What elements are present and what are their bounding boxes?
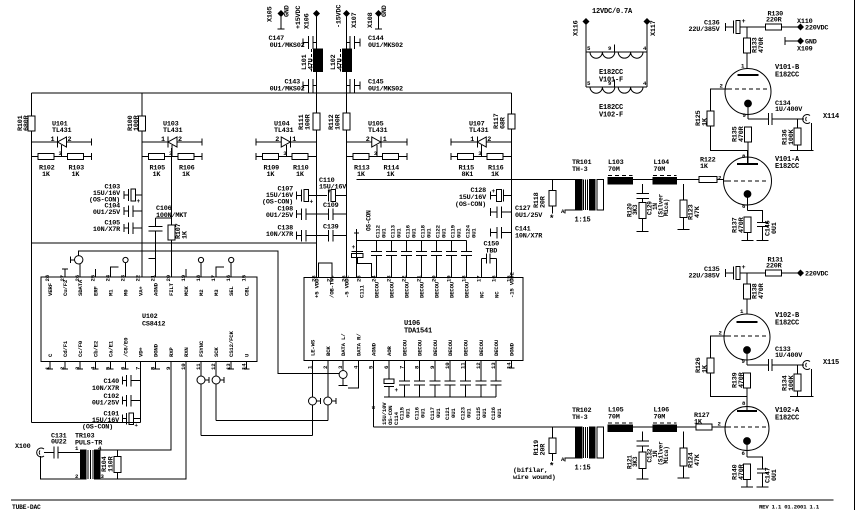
- svg-text:22: 22: [135, 274, 142, 281]
- op-amp U101 TL431 shunt regulator: [32, 121, 92, 180]
- svg-text:470R: 470R: [738, 371, 746, 388]
- svg-text:DECOU: DECOU: [404, 281, 411, 298]
- wire X100 ground return loop: [41, 456, 81, 479]
- capacitor C140 10N/X7R: [92, 375, 141, 393]
- svg-text:SCK: SCK: [213, 347, 220, 357]
- svg-text:X109: X109: [797, 46, 813, 54]
- capacitor C113 0U1 on TDA1541 pin 23: [386, 224, 403, 277]
- capacitor C106 100N/MKT with resistor R107 1K: [149, 148, 190, 277]
- wire CS8412 pin 21 AGND stub: [149, 258, 156, 260]
- wire TDA1541 pin 25 riser to output line: [356, 248, 358, 278]
- capacitor C102 0U1/25V: [92, 393, 141, 408]
- svg-text:TUBE-DAC: TUBE-DAC: [12, 504, 41, 510]
- wire TDA1541 pin 4 stub: [348, 361, 358, 389]
- svg-text:+: +: [352, 244, 356, 251]
- svg-text:1K: 1K: [42, 171, 51, 179]
- svg-text:1: 1: [383, 136, 387, 144]
- svg-text:10N/X7R: 10N/X7R: [266, 231, 294, 239]
- op-amp U107 TL431 shunt regulator: [451, 121, 512, 180]
- svg-text:C111: C111: [359, 284, 366, 298]
- svg-text:TL431: TL431: [469, 127, 489, 135]
- svg-text:DECOU: DECOU: [449, 281, 456, 298]
- svg-text:TH-3: TH-3: [572, 166, 588, 174]
- svg-text:CBL: CBL: [243, 286, 250, 296]
- capacitor C125 0U1 on TDA1541 pin 12: [475, 361, 488, 421]
- svg-text:NC: NC: [479, 291, 486, 298]
- svg-text:AGND: AGND: [153, 282, 160, 296]
- svg-text:0U1/25V: 0U1/25V: [93, 209, 121, 217]
- inductor L105 70M: [608, 407, 633, 432]
- wire SDATA from pin 26 to TDA1541 DATA: [79, 251, 340, 374]
- inductor L101 47U: [301, 49, 323, 72]
- wire TDA1541 top decoupling rail: [354, 210, 467, 248]
- svg-text:+: +: [742, 264, 746, 272]
- svg-text:-15VDC: -15VDC: [336, 5, 344, 28]
- svg-text:1K: 1K: [702, 364, 710, 373]
- svg-text:(OS-CON): (OS-CON): [455, 201, 486, 209]
- svg-text:1U/400V: 1U/400V: [775, 106, 803, 114]
- svg-text:TL431: TL431: [368, 127, 388, 135]
- resistor R122 1K grid stopper: [699, 157, 724, 183]
- transistor V102-F E182CC heater filament: [586, 52, 647, 120]
- op-amp U106 TDA1541 IC body: [304, 278, 523, 361]
- capacitor C109: [317, 202, 347, 220]
- op-amp U103 TL431 shunt regulator: [142, 121, 202, 180]
- svg-text:DECOU: DECOU: [432, 339, 439, 356]
- svg-text:0U1: 0U1: [396, 228, 403, 238]
- svg-text:12VDC/0.7A: 12VDC/0.7A: [592, 8, 633, 16]
- svg-text:X106: X106: [304, 13, 312, 29]
- wire TDA1541 bottom decoupling rail: [384, 396, 496, 398]
- svg-text:TL431: TL431: [274, 127, 294, 135]
- svg-text:0U1/MKS02: 0U1/MKS02: [368, 86, 403, 94]
- node jumper TDA1541 pin 1: [309, 361, 321, 436]
- inductor L106 70M: [653, 407, 676, 432]
- resistor R101 680R: [17, 114, 35, 131]
- wire filter node top: [632, 178, 699, 180]
- svg-text:0U1: 0U1: [404, 408, 411, 418]
- svg-text:1K: 1K: [182, 171, 191, 179]
- resistor R133 470R: [744, 27, 767, 69]
- transistor V101-B E182CC triode: [720, 63, 801, 120]
- pin labels CS8412 top row pins 15-28: [44, 274, 250, 296]
- resistor R137 470R cathode: [732, 216, 754, 240]
- svg-text:TH-3: TH-3: [572, 414, 588, 422]
- resistor R131 220R: [766, 257, 799, 277]
- svg-text:3K3: 3K3: [632, 204, 639, 215]
- node pullup on CS8412 pin 18: [198, 257, 203, 277]
- svg-text:0U1: 0U1: [496, 408, 503, 418]
- connector X105 GND: [267, 5, 292, 29]
- capacitor C147 0U1/MKS02: [268, 35, 316, 50]
- resistor R127 1K grid stopper: [694, 412, 724, 430]
- svg-text:DECOU: DECOU: [434, 281, 441, 298]
- svg-text:VA+: VA+: [138, 286, 145, 296]
- inductor L103 70M: [608, 159, 633, 184]
- svg-text:220R: 220R: [766, 263, 783, 271]
- svg-text:10N/X7R: 10N/X7R: [515, 233, 543, 241]
- svg-text:X116: X116: [573, 20, 581, 36]
- svg-text:1:15: 1:15: [575, 465, 591, 473]
- svg-text:1K: 1K: [296, 171, 305, 179]
- connector X106 +15VDC: [295, 6, 319, 29]
- svg-text:ERF: ERF: [92, 286, 99, 296]
- wire jumper link CS pin 11 to TDA pin 1: [201, 435, 313, 437]
- op-amp U104 TL431 shunt regulator: [256, 121, 317, 180]
- connector X115 output: [803, 359, 839, 397]
- transistor V102-A E182CC triode: [718, 397, 801, 458]
- svg-text:AOR: AOR: [386, 346, 393, 356]
- capacitor C105 10N/X7R: [93, 220, 142, 235]
- svg-text:470R: 470R: [758, 36, 766, 53]
- capacitor C141 10N/X7R: [491, 226, 544, 241]
- svg-text:DECOU: DECOU: [401, 339, 408, 356]
- svg-text:LE-WS: LE-WS: [310, 339, 317, 356]
- svg-text:GND: GND: [381, 5, 389, 17]
- svg-text:FILT: FILT: [168, 282, 175, 296]
- resistor R119 20R: [533, 427, 556, 472]
- svg-text:0U1: 0U1: [450, 408, 457, 418]
- wire +15V rail vertical x316: [316, 14, 318, 278]
- svg-text:DECOU: DECOU: [389, 281, 396, 298]
- svg-text:0U1/MKS02: 0U1/MKS02: [368, 42, 403, 50]
- capacitor C112 0U1 on TDA1541 pin 24: [371, 224, 388, 277]
- wire jumper link CS pin 12 to TDA pin 2: [216, 419, 328, 421]
- svg-text:0U1: 0U1: [381, 228, 388, 238]
- node note bifilar wire wound: [513, 467, 556, 482]
- resistor R112 100R: [328, 113, 350, 130]
- svg-text:1K: 1K: [491, 171, 500, 179]
- svg-text:+15VDC: +15VDC: [295, 6, 303, 29]
- svg-text:2: 2: [178, 136, 182, 144]
- svg-text:X108: X108: [367, 12, 375, 28]
- capacitor C146 0U1 cathode bypass: [748, 211, 780, 241]
- svg-text:26: 26: [341, 275, 348, 282]
- capacitor C147 0U1 cathode bypass: [747, 457, 779, 487]
- resistor R138 470R: [744, 273, 767, 315]
- svg-text:0U1: 0U1: [435, 408, 442, 418]
- capacitor C114 15U/10V OS-CON: [381, 361, 400, 426]
- svg-text:M3: M3: [213, 289, 220, 296]
- capacitor C145 0U1/MKS02: [347, 79, 404, 94]
- svg-text:100R: 100R: [335, 113, 343, 130]
- svg-text:SEL: SEL: [228, 286, 235, 296]
- svg-text:1K: 1K: [182, 230, 190, 239]
- capacitor C129 1N silver mica with resistor R120 3K3: [627, 184, 671, 231]
- svg-text:Ca/E1: Ca/E1: [107, 340, 114, 357]
- svg-text:1K: 1K: [267, 171, 276, 179]
- svg-text:CS12/FCK: CS12/FCK: [228, 331, 235, 357]
- svg-text:20R: 20R: [540, 443, 548, 456]
- node pullup on CS8412 pin 23: [123, 257, 128, 277]
- svg-text:0U1: 0U1: [456, 228, 463, 238]
- wire TDA1541 pin 14 stub: [510, 361, 512, 369]
- transistor V101-F E182CC heater filament: [586, 45, 647, 85]
- svg-text:+: +: [137, 198, 141, 205]
- svg-text:1: 1: [292, 136, 296, 144]
- connector X114 output: [803, 113, 839, 151]
- svg-text:220R: 220R: [766, 17, 783, 25]
- resistor R104 110R: [101, 450, 121, 479]
- svg-text:100R: 100R: [305, 113, 313, 130]
- capacitor C144 0U1/MKS02: [347, 35, 404, 50]
- node jumper TDA1541 pin 3 with ground: [339, 361, 348, 386]
- svg-text:GND: GND: [284, 5, 292, 17]
- capacitor C103 15U/16V OS-CON: [89, 184, 142, 206]
- resistor R117 68R: [493, 113, 515, 129]
- transistor V101-A E182CC triode: [718, 151, 800, 211]
- svg-text:/C8/E0: /C8/E0: [123, 337, 130, 357]
- svg-text:1U/400V: 1U/400V: [775, 352, 803, 360]
- svg-text:1: 1: [51, 136, 55, 144]
- svg-text:70M: 70M: [654, 414, 666, 422]
- svg-text:Cb/E2: Cb/E2: [92, 340, 99, 357]
- svg-text:DECOU: DECOU: [464, 281, 471, 298]
- svg-text:V102-F: V102-F: [599, 112, 623, 120]
- svg-text:DECOU: DECOU: [493, 339, 500, 356]
- svg-text:DECOU: DECOU: [374, 281, 381, 298]
- svg-text:+: +: [742, 18, 746, 26]
- svg-text:M0: M0: [123, 289, 130, 296]
- svg-text:DGND: DGND: [508, 342, 515, 356]
- op-amp U102 CS8412 IC body: [41, 277, 257, 362]
- svg-text:2: 2: [275, 136, 279, 144]
- svg-text:100R: 100R: [133, 114, 141, 131]
- svg-text:OS-CON: OS-CON: [366, 210, 373, 231]
- svg-text:0U1: 0U1: [771, 469, 779, 481]
- svg-text:X117: X117: [650, 20, 658, 36]
- transistor TR101 TH-3 transformer: [561, 159, 604, 225]
- svg-text:NC: NC: [494, 291, 501, 298]
- transistor TR103 PULS-TR pulse transformer: [75, 433, 105, 481]
- svg-text:M2: M2: [198, 289, 205, 296]
- svg-text:220VDC: 220VDC: [805, 25, 828, 33]
- svg-text:+: +: [492, 188, 496, 195]
- node connector box on TDA1541 pin 27: [319, 263, 333, 278]
- svg-text:0U1: 0U1: [481, 408, 488, 418]
- svg-text:10N/X7R: 10N/X7R: [92, 385, 120, 393]
- svg-text:C139: C139: [323, 224, 339, 232]
- svg-text:1:15: 1:15: [575, 217, 591, 225]
- wire supply loop bottom: [32, 422, 141, 424]
- resistor R136 100K: [782, 119, 802, 151]
- svg-text:X115: X115: [823, 359, 839, 367]
- inductor L102 47U: [330, 49, 352, 72]
- pin labels TDA1541 bottom row pins 1-14: [307, 333, 516, 369]
- svg-text:470R: 470R: [758, 282, 766, 299]
- wire left bus x31.5: [31, 93, 33, 423]
- svg-text:BCK: BCK: [325, 346, 332, 356]
- connector X116: [573, 19, 589, 52]
- wire bus VA+ x142: [141, 93, 143, 277]
- capacitor C124 0U1 on TDA1541 pin 18: [461, 224, 478, 277]
- connector X100 input: [15, 443, 44, 457]
- svg-text:2: 2: [68, 136, 72, 144]
- node pullup on CS8412 pin 16: [229, 257, 234, 277]
- svg-text:DGND: DGND: [153, 343, 160, 357]
- svg-text:DECOU: DECOU: [478, 339, 485, 356]
- svg-text:+: +: [395, 387, 399, 394]
- capacitor C122 0U1 on TDA1541 pin 20: [431, 224, 448, 277]
- svg-text:X105: X105: [267, 6, 275, 22]
- capacitor C135 22U/385V: [688, 264, 765, 281]
- svg-text:0U1/MKS02: 0U1/MKS02: [270, 86, 305, 94]
- svg-text:AGND: AGND: [371, 342, 378, 356]
- svg-text:X114: X114: [823, 113, 839, 121]
- node jumper TDA1541 pin 2: [324, 361, 336, 421]
- capacitor C121 0U1 on TDA1541 pin 10: [444, 361, 457, 421]
- wire CS8412 pin 24 stub with tick: [110, 267, 118, 277]
- wire CS8412 pin 25 stub: [94, 269, 96, 277]
- svg-text:Mica): Mica): [663, 446, 670, 463]
- svg-text:CS8412: CS8412: [142, 321, 165, 329]
- svg-text:TL431: TL431: [52, 127, 72, 135]
- ground bar under R136 and X114: [790, 150, 814, 152]
- transistor V102-B E182CC triode: [719, 308, 801, 365]
- capacitor C107 15U/16V OS-CON: [262, 186, 317, 207]
- connector X107 -15VDC: [336, 5, 360, 28]
- svg-text:21: 21: [150, 274, 157, 281]
- resistor R135 470R cathode: [732, 125, 752, 164]
- svg-text:REV 1.1 01.2001 1.1: REV 1.1 01.2001 1.1: [759, 504, 820, 511]
- wire CS8412 pin 27 stub: [64, 269, 66, 277]
- ground bar under R134 and X115: [790, 396, 814, 398]
- capacitor C139: [317, 224, 347, 242]
- svg-text:47K: 47K: [694, 453, 702, 466]
- resistor R125 1K grid: [695, 89, 748, 151]
- wire CS8412 pin 19 stub: [185, 269, 187, 277]
- resistor R139 470R cathode: [732, 371, 751, 410]
- svg-text:28: 28: [311, 275, 318, 282]
- wire ground bus horizontal y93: [32, 92, 512, 94]
- svg-text:20: 20: [165, 274, 172, 281]
- svg-text:E182CC: E182CC: [775, 163, 799, 171]
- svg-text:FSYNC: FSYNC: [198, 340, 205, 357]
- svg-text:TBD: TBD: [486, 248, 498, 256]
- wire CS8412 pin 14 stub: [245, 362, 247, 370]
- svg-text:0U1: 0U1: [466, 408, 473, 418]
- svg-text:0U1: 0U1: [771, 222, 779, 234]
- capacitor C104 0U1/25V: [93, 203, 142, 218]
- resistor R124 47K: [678, 432, 703, 478]
- resistor R123 47K: [678, 184, 703, 229]
- svg-text:470R: 470R: [738, 463, 746, 480]
- wire CS8412 pin 7 VD+ riser down: [140, 362, 142, 423]
- resistor R111 100R: [298, 113, 320, 130]
- svg-text:0U1/25V: 0U1/25V: [515, 212, 543, 220]
- svg-text:DATA R/: DATA R/: [355, 333, 362, 356]
- svg-text:15: 15: [240, 274, 247, 281]
- op-amp U105 TL431 shunt regulator: [347, 121, 408, 180]
- svg-text:DECOU: DECOU: [419, 281, 426, 298]
- svg-text:470R: 470R: [738, 125, 746, 142]
- svg-text:1K: 1K: [72, 171, 81, 179]
- capacitor C116 0U1 on TDA1541 pin 22: [401, 224, 418, 277]
- pin labels TDA1541 top row pins 15-28: [311, 272, 516, 298]
- capacitor C128 15U/16V OS-CON: [455, 187, 512, 209]
- capacitor C115 0U1 on TDA1541 pin 7: [398, 361, 411, 421]
- svg-text:1K: 1K: [387, 171, 396, 179]
- svg-text:22U/385V: 22U/385V: [688, 273, 720, 281]
- svg-text:2: 2: [487, 136, 491, 144]
- svg-text:E182CC: E182CC: [775, 415, 799, 423]
- svg-text:C109: C109: [323, 202, 339, 210]
- title block rule: [11, 499, 834, 501]
- node jumper CS8412 pin 12: [212, 362, 224, 421]
- capacitor C131 0U22: [44, 433, 81, 459]
- svg-text:DECOU: DECOU: [463, 339, 470, 356]
- svg-text:X100: X100: [15, 443, 31, 451]
- capacitor C116 0U1 on TDA1541 pin 8: [414, 361, 427, 421]
- svg-text:X107: X107: [351, 12, 359, 28]
- svg-text:DECOU: DECOU: [447, 339, 454, 356]
- wire -15V rail vertical x346: [346, 14, 348, 278]
- capacitor C117 0U1 on TDA1541 pin 9: [429, 361, 442, 421]
- capacitor C132 1N silver mica with resistor R121 3K3: [627, 432, 671, 479]
- svg-text:0U1: 0U1: [426, 228, 433, 238]
- svg-text:1K: 1K: [357, 171, 366, 179]
- svg-text:E182CC: E182CC: [775, 320, 799, 328]
- svg-text:E182CC: E182CC: [775, 72, 799, 80]
- resistor R140 470R cathode: [732, 463, 754, 487]
- svg-text:1: 1: [161, 136, 165, 144]
- svg-text:VERF: VERF: [47, 282, 54, 296]
- capacitor C110 15U/16V: [317, 177, 348, 202]
- svg-text:680R: 680R: [23, 114, 31, 131]
- svg-text:47K: 47K: [694, 205, 702, 218]
- capacitor C150 TBD between pins 17 and 16: [482, 241, 500, 278]
- svg-text:15: 15: [506, 275, 513, 282]
- connector X110 220VDC: [797, 18, 828, 33]
- capacitor C101 15U/16V OS-CON: [82, 411, 141, 432]
- resistor R134 100K: [782, 365, 802, 397]
- capacitor C143 0U1/MKS02: [270, 79, 317, 94]
- svg-text:470R: 470R: [738, 216, 746, 233]
- wire analog output line top channel: [357, 178, 576, 180]
- svg-text:0U1/25V: 0U1/25V: [92, 400, 120, 408]
- svg-text:(OS-CON): (OS-CON): [82, 424, 113, 432]
- connector X117: [644, 19, 658, 52]
- svg-text:1: 1: [470, 136, 474, 144]
- svg-text:-15 VDD2: -15 VDD2: [509, 272, 516, 298]
- inductor L104 70M: [653, 159, 676, 184]
- svg-text:+: +: [310, 199, 314, 206]
- svg-text:70M: 70M: [608, 414, 620, 422]
- svg-text:0U1: 0U1: [441, 228, 448, 238]
- svg-text:22U/385V: 22U/385V: [688, 26, 720, 34]
- svg-text:20R: 20R: [540, 195, 548, 208]
- svg-text:*: *: [549, 462, 554, 472]
- svg-text:68R: 68R: [500, 116, 508, 129]
- wire bus -15V x511.5: [511, 93, 513, 277]
- capacitor C118 0U1 on TDA1541 pin 21: [416, 224, 433, 277]
- svg-text:RXP: RXP: [168, 347, 175, 357]
- wire CS8412 pins 1-6 stubs: [47, 362, 129, 370]
- svg-text:0U1: 0U1: [411, 228, 418, 238]
- wire CS8412 pin 13 stub: [230, 362, 232, 370]
- wire CS8412 pin 28 riser to +5V net: [32, 243, 317, 277]
- svg-text:1K: 1K: [702, 117, 710, 126]
- ground CS8412 pin 8 DGND: [151, 362, 160, 370]
- capacitor C133 1U/400V output: [747, 346, 804, 371]
- svg-text:0U1: 0U1: [420, 408, 427, 418]
- svg-text:10N/X7R: 10N/X7R: [93, 226, 121, 234]
- capacitor C111 15U/16V: [352, 244, 372, 278]
- wire TDA1541 pin 5 to output transformer TR102: [371, 361, 576, 428]
- wire filter node bottom: [632, 426, 696, 428]
- svg-text:2: 2: [366, 136, 370, 144]
- capacitor C134 1U/400V output: [748, 100, 804, 125]
